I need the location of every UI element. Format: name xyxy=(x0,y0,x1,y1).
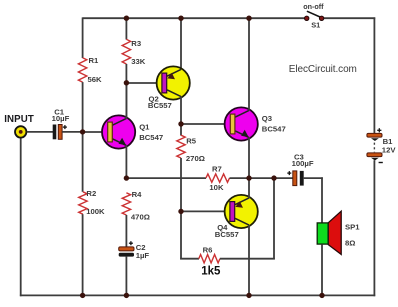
svg-text:BC557: BC557 xyxy=(148,101,172,110)
svg-text:8Ω: 8Ω xyxy=(345,238,355,247)
wire input node to Q1 base xyxy=(83,131,108,133)
input ground drop wire xyxy=(20,138,22,297)
wire R6 to riser corner xyxy=(220,258,275,260)
junction top rail at R3 xyxy=(124,16,129,21)
svg-text:33K: 33K xyxy=(131,57,146,66)
transistor Q2 BC557 body xyxy=(157,66,190,99)
wire rail to Q3 collector xyxy=(248,17,250,110)
junction Q1 emitter/R4/R7 node xyxy=(124,175,129,180)
wire corner down to speaker xyxy=(321,177,323,223)
junction ground rail at Q4 collector xyxy=(246,293,251,298)
resistor R2 xyxy=(79,192,87,214)
switch S1 left contact xyxy=(305,16,309,20)
resistor R1 xyxy=(78,58,86,82)
wire R1 to R2 (through input node) xyxy=(82,82,84,192)
wire R3 to Q1 collector xyxy=(125,64,127,119)
junction ground rail at C2 xyxy=(124,293,129,298)
wire node to Q2 base xyxy=(126,82,162,84)
junction output node Q3/Q4 emitters xyxy=(246,175,251,180)
wire output node to Q4 emitter xyxy=(248,178,250,198)
wire R4 to C2 xyxy=(125,215,127,248)
wire C2 to ground rail xyxy=(125,257,127,296)
wire Q2 collector node to Q3 base xyxy=(181,123,230,125)
switch S1 lever xyxy=(307,11,321,17)
junction Q2 collector/Q3 base node xyxy=(178,121,183,126)
svg-text:Q1: Q1 xyxy=(139,123,150,132)
capacitor C1 xyxy=(53,125,57,140)
wire Q4 collector to ground rail xyxy=(248,225,250,296)
svg-text:R5: R5 xyxy=(186,137,197,146)
svg-text:1µF: 1µF xyxy=(136,251,150,260)
transistor Q1 BC547 body xyxy=(102,115,135,148)
junction output node to R6 riser xyxy=(271,175,276,180)
svg-text:470Ω: 470Ω xyxy=(131,212,150,221)
resistor R3 xyxy=(122,39,130,64)
wire riser up to output node xyxy=(273,178,275,259)
battery B1 dashed middle xyxy=(373,143,375,153)
svg-text:1k5: 1k5 xyxy=(201,266,221,278)
bottom ground rail xyxy=(20,294,375,296)
right battery column top wire xyxy=(373,17,375,133)
wire Q2 collector to node xyxy=(180,96,182,135)
junction R3/Q1 collector/Q2 base node xyxy=(124,80,129,85)
wire R5 down across emitter row to R6 corner xyxy=(180,158,182,260)
resistor R5 xyxy=(177,135,185,158)
capacitor C3 xyxy=(293,171,297,186)
svg-text:on-off: on-off xyxy=(303,2,324,11)
wire input jack to C1 xyxy=(27,131,53,133)
wire speaker to ground rail xyxy=(321,244,323,295)
resistor R7 xyxy=(206,174,230,182)
resistor R6 xyxy=(199,255,220,263)
INPUT jack J1 xyxy=(15,126,26,137)
svg-text:R7: R7 xyxy=(212,164,222,173)
svg-text:R3: R3 xyxy=(131,39,141,48)
wire Q4 base node to Q4 base xyxy=(181,210,230,212)
battery B1 top cell xyxy=(367,133,382,137)
svg-text:100K: 100K xyxy=(86,207,105,216)
wire Q3 emitter to output node xyxy=(248,137,250,178)
wire rail to R3 xyxy=(125,17,127,39)
speaker SP1 box xyxy=(317,223,328,244)
right battery column bottom wire xyxy=(373,160,375,296)
wire Q1 emitter leg to emitter node xyxy=(125,145,127,178)
battery B1 bottom cell xyxy=(367,153,382,157)
svg-text:100µF: 100µF xyxy=(292,159,314,168)
junction top rail at Q3 collector xyxy=(246,16,251,21)
switch S1 right contact xyxy=(319,16,323,20)
svg-text:ElecCircuit.com: ElecCircuit.com xyxy=(289,64,357,75)
svg-text:R2: R2 xyxy=(86,189,96,198)
wire R7 to C3 xyxy=(230,177,293,179)
wire C3 to speaker corner xyxy=(304,177,323,179)
capacitor C2 xyxy=(119,247,134,251)
svg-text:SP1: SP1 xyxy=(345,222,360,231)
battery B1 plus sign xyxy=(377,129,381,131)
resistor R4 xyxy=(122,193,130,215)
wire Q1 emitter node to R7 xyxy=(126,177,206,179)
svg-text:BC547: BC547 xyxy=(139,133,163,142)
svg-text:BC557: BC557 xyxy=(215,230,239,239)
svg-text:12V: 12V xyxy=(382,146,397,155)
speaker SP1 cone xyxy=(328,211,341,254)
junction ground rail at speaker xyxy=(319,293,324,298)
svg-text:56K: 56K xyxy=(88,75,103,84)
wire R2 to ground rail xyxy=(82,214,84,295)
svg-text:R4: R4 xyxy=(132,190,143,199)
svg-text:Q3: Q3 xyxy=(262,114,272,123)
wire R6 corner to R6 xyxy=(180,258,199,260)
junction input node xyxy=(80,129,85,134)
svg-text:BC547: BC547 xyxy=(262,125,286,134)
svg-text:S1: S1 xyxy=(311,21,320,30)
junction Q4 base/R5/R6 node xyxy=(178,209,183,214)
wire Q1 collector leg xyxy=(125,83,127,119)
wire rail to R1 xyxy=(82,17,84,58)
top V+ rail left segment xyxy=(83,17,307,19)
svg-text:10K: 10K xyxy=(209,183,224,192)
junction top rail at Q2 emitter xyxy=(178,16,183,21)
battery B1 minus sign xyxy=(379,162,383,164)
wire rail to Q2 emitter xyxy=(180,17,182,69)
transistor Q3 BC547 body xyxy=(225,107,258,140)
junction ground rail at R2 xyxy=(80,293,85,298)
transistor Q4 BC557 body xyxy=(225,195,258,228)
svg-text:270Ω: 270Ω xyxy=(186,154,205,163)
svg-text:INPUT: INPUT xyxy=(4,114,34,125)
wire C1 to input node xyxy=(62,131,83,133)
svg-text:R1: R1 xyxy=(89,56,100,65)
top V+ rail right segment xyxy=(322,17,376,19)
svg-text:R6: R6 xyxy=(203,246,213,255)
svg-text:10µF: 10µF xyxy=(52,114,70,123)
